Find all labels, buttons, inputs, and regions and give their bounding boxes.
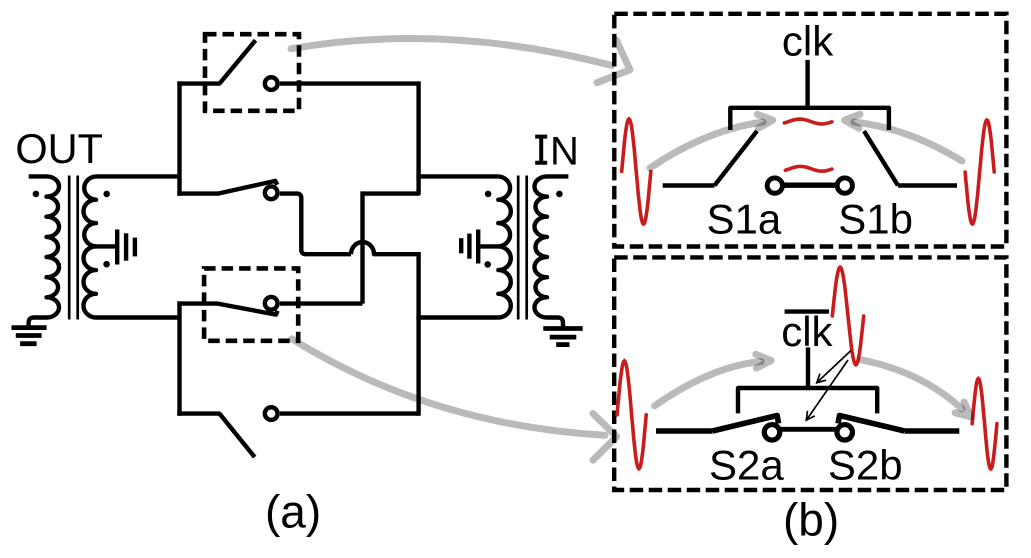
clk-bar bracket: [738, 388, 877, 413]
red signal wavelet left (b bottom): [617, 361, 646, 469]
dashed box around switch row1: [205, 34, 299, 111]
red coupling squiggle lower: [785, 166, 832, 171]
transformer T1 OUT: primary winding (left): [47, 176, 60, 317]
red coupling squiggle upper: [784, 119, 832, 124]
wire: row3 right to middle vertical: [280, 301, 363, 305]
transformer T1 OUT: secondary winding upper half: [83, 176, 96, 246]
red signal wavelet left (b top): [622, 119, 651, 224]
gray arrow from bottom dashed box to panel (b) bottom: [292, 339, 605, 435]
wire: IN bottom lead: [416, 315, 498, 319]
wire: row4 pivot feed: [177, 411, 220, 415]
transformer T2 IN: primary winding lower half: [498, 246, 511, 317]
switch contact circle row3: [265, 297, 278, 310]
wire: S2b terminal: [905, 428, 960, 434]
svg-text:OUT: OUT: [15, 125, 103, 172]
svg-text:S1a: S1a: [707, 195, 782, 242]
wire: S2a terminal: [656, 428, 713, 434]
transformer T1 OUT: bottom-left lead to ground: [29, 318, 47, 328]
wire: IN top lead: [416, 174, 498, 178]
svg-text:S2b: S2b: [828, 442, 903, 489]
wire: OUT secondary top lead: [96, 174, 180, 178]
contact circle S1a: [767, 178, 782, 193]
ground symbol (IN bottom-right): [543, 329, 582, 345]
wire: clk drive line: [805, 60, 809, 108]
label IN: [535, 130, 579, 174]
thin arrow sine-to-clkline: [817, 351, 851, 383]
gray arrowhead into panel (b) top: [597, 40, 630, 83]
gray arrow left-to-clk (b bottom): [655, 362, 761, 406]
wire: clk-bar drive line: [806, 347, 810, 388]
ground symbol (OUT bottom-left): [12, 328, 47, 344]
wire: OUT secondary bottom lead: [96, 315, 180, 319]
polarity dot (OUT secondary bottom): [103, 261, 110, 268]
wire: crossing row with hop over vertical: [351, 242, 419, 254]
gray arrow clk-to-right (b bottom): [862, 360, 962, 409]
polarity dot (IN primary bottom): [484, 261, 491, 268]
contact circle S1b: [837, 178, 852, 193]
gray arrow from top dashed box to panel (b) top: [291, 39, 612, 66]
switch S1b lever (open): [864, 131, 898, 186]
ground symbol (IN center tap, sideways): [461, 230, 478, 264]
svg-text:(a): (a): [265, 486, 321, 538]
switch S2a lever (closed): [713, 416, 779, 432]
wire: S1b terminal: [898, 183, 957, 187]
wire: left vertical bus lower (rows 3-4): [177, 301, 181, 415]
wire: S1a terminal: [663, 183, 715, 187]
contact circle S2b: [837, 425, 853, 441]
transformer T2 IN: primary winding upper half (left): [498, 176, 511, 246]
transformer T2 IN: top-right stub lead: [547, 174, 568, 178]
switch contact circle row2: [265, 186, 278, 199]
red signal wavelet right (b bottom): [972, 379, 997, 469]
transformer T1 OUT: secondary winding lower half: [83, 246, 96, 317]
svg-text:clk: clk: [782, 18, 834, 65]
thin arrow sine-to-contact: [807, 360, 849, 420]
svg-text:(b): (b): [783, 494, 839, 546]
wire: row1 to right bus: [280, 81, 419, 85]
switch lever row4 (open, down): [220, 414, 255, 458]
gray arrowhead left-to-clk (b bottom): [756, 354, 771, 368]
clk bracket: [730, 108, 889, 130]
transformer T2 IN: bottom-right lead to ground: [547, 318, 563, 328]
red signal wavelet top (b bottom): [832, 267, 863, 365]
polarity dot (IN secondary): [556, 191, 563, 198]
wire: right bus A (row1 down to cross link): [363, 81, 419, 193]
transformer T2 IN: secondary winding (right): [534, 176, 547, 317]
transformer T1 OUT: center tap wire: [96, 244, 115, 248]
switch S1a detail lever (row1, open): [220, 40, 256, 83]
transformer T1 OUT: top-left stub lead: [29, 174, 47, 178]
dashed box around switch row3: [204, 268, 298, 340]
ground symbol (OUT center tap, sideways): [117, 230, 135, 265]
switch S2b detail lever (row3, closed): [218, 304, 278, 315]
wire: row4 to right bus: [280, 411, 419, 415]
gray arrowhead into panel (b) bottom: [593, 414, 617, 461]
contact circle S2a: [764, 425, 780, 441]
wire: row3 pivot feed: [177, 301, 218, 305]
switch S1a lever (open): [715, 131, 758, 186]
wire: left vertical bus upper (rows 1-2): [177, 81, 181, 195]
gray arrowhead clk-to-right (b bottom): [955, 402, 971, 417]
dashed panel border (b) bottom: [614, 257, 1006, 490]
gray arrow right-to-center (b top): [854, 122, 962, 161]
gray arrowhead left-to-center (b top): [757, 114, 772, 128]
contact bar S1: [783, 182, 837, 187]
red signal wavelet right (b top): [965, 120, 994, 224]
thin arrowhead sine-to-contact: [806, 411, 815, 420]
transformer T2 IN: center tap wire: [480, 244, 498, 248]
polarity dot (OUT secondary top): [103, 191, 110, 198]
gray arrowhead right-to-center (b top): [845, 114, 860, 128]
polarity dot (OUT primary): [33, 191, 40, 198]
switch S2b lever (closed): [838, 416, 905, 432]
svg-text:S1b: S1b: [838, 195, 913, 242]
polarity dot (IN primary top): [485, 191, 492, 198]
overline bar of clk: [785, 309, 830, 313]
contact bar S2: [781, 427, 836, 432]
dashed panel border (b) top: [614, 14, 1006, 247]
wire: right bus C (crossing row down to row4): [416, 252, 420, 416]
gray arrow left-to-center (b top): [650, 122, 763, 168]
wire: row1 pivot feed: [177, 81, 220, 85]
wire: row2 pivot feed: [177, 191, 219, 195]
wire: middle vertical B (cross link down to row3): [360, 191, 364, 303]
transformer T1 OUT: core lines: [69, 176, 78, 320]
svg-text:S2a: S2a: [709, 442, 784, 489]
svg-text:N: N: [550, 130, 579, 174]
switch S2a detail lever (row2, closed): [218, 181, 277, 194]
wire: row2 right, down to crossing row: [280, 194, 351, 255]
switch contact circle row1: [265, 77, 278, 90]
switch contact circle row4: [265, 407, 278, 420]
thin arrowhead sine-to-clkline: [817, 374, 826, 383]
transformer T2 IN: core lines: [518, 176, 527, 320]
